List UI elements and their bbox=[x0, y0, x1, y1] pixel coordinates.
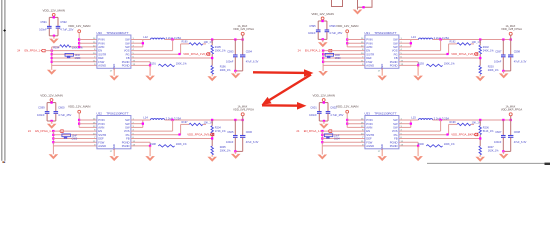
junction bbox=[321, 137, 323, 139]
junction bbox=[417, 64, 419, 66]
wire DEF pin bbox=[53, 138, 97, 140]
resistor R192 (PG pull-up) bbox=[399, 53, 449, 55]
ground (output caps) bbox=[503, 151, 505, 154]
junction bbox=[211, 119, 213, 121]
junction bbox=[52, 137, 54, 139]
wire GND pad bbox=[113, 68, 115, 75]
junction bbox=[502, 38, 504, 40]
capacitor C599 bbox=[45, 111, 50, 113]
capacitor C591 lead bbox=[48, 17, 50, 26]
capacitor C600 bbox=[54, 111, 59, 113]
ground (IC pad) bbox=[377, 76, 387, 81]
junction bbox=[51, 50, 53, 52]
resistor R198 bbox=[158, 145, 174, 147]
junction bbox=[50, 101, 52, 103]
junction bbox=[234, 119, 236, 121]
junction bbox=[440, 38, 442, 40]
junction bbox=[502, 150, 504, 152]
capacitor C595 bbox=[316, 29, 321, 31]
wire stub (cut-off circuit top right U) bbox=[358, 0, 373, 7]
ground (input caps) bbox=[53, 36, 55, 39]
wire SW pin 1 bbox=[399, 119, 411, 121]
svg-text:100nF: 100nF bbox=[494, 140, 502, 144]
svg-text:R199: R199 bbox=[450, 121, 457, 124]
wire divider to ground bbox=[479, 74, 481, 76]
svg-text:200K_1%: 200K_1% bbox=[220, 69, 232, 72]
svg-text:U32: U32 bbox=[96, 111, 102, 115]
resistor R196 (divider bottom) bbox=[211, 66, 213, 75]
wire top rail of input caps bottom-left bbox=[47, 102, 56, 104]
wire PGND bus bbox=[149, 142, 151, 146]
wire VDD bus to PVIN bbox=[346, 33, 348, 47]
resistor R207 (divider bottom) bbox=[479, 146, 481, 155]
svg-text:C601: C601 bbox=[310, 105, 317, 109]
svg-text:FB: FB bbox=[394, 56, 398, 60]
svg-text:SW: SW bbox=[393, 126, 398, 130]
resistor R206 (divider top) bbox=[479, 120, 481, 126]
junction bbox=[51, 53, 53, 55]
wire top rail of input caps top-left bbox=[49, 16, 58, 18]
svg-text:SW: SW bbox=[125, 126, 130, 130]
svg-text:100nF: 100nF bbox=[37, 113, 45, 117]
svg-text:L12: L12 bbox=[143, 35, 148, 39]
svg-text:U31: U31 bbox=[364, 31, 370, 35]
junction bbox=[479, 137, 481, 139]
wire VOS sense bbox=[399, 130, 441, 132]
wire SW pin 3 bbox=[131, 46, 143, 48]
ground (top cut-off circuit) bbox=[357, 7, 359, 9]
svg-text:4.7uF_25V: 4.7uF_25V bbox=[58, 113, 71, 117]
svg-text:24: 24 bbox=[17, 49, 20, 53]
capacitor C591 bbox=[47, 25, 52, 27]
svg-text:C590: C590 bbox=[335, 57, 341, 60]
wire AVIN pin bbox=[347, 46, 365, 48]
svg-text:VDD_BKP_FPGA: VDD_BKP_FPGA bbox=[501, 108, 523, 112]
junction bbox=[479, 57, 481, 59]
svg-text:47uF_6.3V: 47uF_6.3V bbox=[514, 59, 527, 63]
wire divider node bbox=[211, 135, 213, 147]
svg-text:SS/TR: SS/TR bbox=[98, 133, 106, 137]
svg-text:AVIN: AVIN bbox=[366, 45, 372, 49]
wire output caps ground rail bbox=[235, 150, 242, 152]
wire FSW pin bbox=[53, 141, 97, 143]
junction bbox=[78, 46, 80, 48]
wire FSW pin bbox=[322, 141, 365, 143]
wire SW pin 1 bbox=[131, 119, 143, 121]
border zone tick mark bbox=[3, 29, 6, 32]
wire SS/TR pin bbox=[322, 134, 365, 136]
wire AGND pin bbox=[53, 145, 97, 147]
svg-text:100K_1%: 100K_1% bbox=[444, 143, 456, 146]
wire bottom rail of input caps bbox=[317, 32, 319, 40]
svg-text:TPS62130RGTT: TPS62130RGTT bbox=[374, 111, 397, 115]
svg-text:AVIN: AVIN bbox=[366, 126, 372, 130]
svg-text:SS/TR: SS/TR bbox=[366, 133, 374, 137]
svg-text:AGND: AGND bbox=[366, 144, 374, 148]
svg-text:VDD_1V8_FPGA: VDD_1V8_FPGA bbox=[501, 27, 522, 31]
wire output caps ground rail bbox=[503, 150, 510, 152]
wire DEF pin bbox=[322, 138, 365, 140]
off-page connector output net bbox=[206, 53, 210, 56]
ground (IC pad) bbox=[377, 156, 387, 161]
junction bbox=[234, 150, 236, 152]
svg-text:200K_1%: 200K_1% bbox=[220, 149, 232, 152]
wire bottom rail of input caps bbox=[46, 113, 48, 121]
annotation arrow 1 (top, pointing right) bbox=[253, 71, 306, 74]
off-page connector output net bbox=[210, 133, 214, 136]
junction bbox=[171, 38, 173, 40]
svg-text:VDD_12V_MAIN: VDD_12V_MAIN bbox=[42, 8, 65, 12]
border bottom-left mark bbox=[2, 161, 4, 163]
svg-text:DEF: DEF bbox=[366, 137, 372, 141]
wire DEF pin bbox=[323, 57, 365, 59]
wire PGND pin 2 bbox=[399, 64, 418, 66]
svg-text:PVIN: PVIN bbox=[366, 41, 372, 45]
wire output rail bbox=[165, 119, 243, 121]
svg-text:PGND: PGND bbox=[390, 140, 398, 144]
net label VDD_FPGA_BKP_1B bbox=[446, 133, 448, 135]
capacitor C590 bbox=[328, 55, 330, 57]
wire SW pin 3 bbox=[399, 126, 411, 128]
ground (input caps) bbox=[51, 121, 53, 124]
wire FB net bbox=[131, 138, 212, 140]
inductor L12 bbox=[143, 39, 151, 41]
junction bbox=[171, 119, 173, 121]
junction bbox=[346, 42, 348, 44]
wire SS/TR pin bbox=[53, 134, 97, 136]
capacitor C595 lead bbox=[317, 21, 319, 30]
junction bbox=[346, 123, 348, 125]
wire SW pin 1 bbox=[399, 39, 411, 41]
svg-text:PGND: PGND bbox=[390, 60, 398, 64]
svg-text:FB: FB bbox=[394, 137, 398, 141]
svg-text:U30: U30 bbox=[96, 31, 102, 35]
sheet border outer line bbox=[1, 0, 3, 161]
wire PVIN pin 1 bbox=[79, 39, 97, 41]
svg-text:C605: C605 bbox=[227, 130, 234, 134]
capacitor C602 lead bbox=[327, 103, 329, 112]
svg-text:PVIN: PVIN bbox=[366, 38, 372, 42]
svg-text:AVIN: AVIN bbox=[98, 126, 104, 130]
wire VDD bus to PVIN bbox=[346, 113, 348, 127]
svg-text:PG: PG bbox=[394, 52, 398, 56]
junction bbox=[417, 145, 419, 147]
svg-text:PG: PG bbox=[126, 133, 130, 137]
svg-text:C597: C597 bbox=[495, 50, 502, 54]
svg-text:L14: L14 bbox=[143, 116, 148, 120]
wire divider node bbox=[211, 54, 213, 66]
svg-text:VDD_1V0_FPGA: VDD_1V0_FPGA bbox=[233, 27, 254, 31]
ground (PGND) bbox=[145, 76, 155, 81]
wire EN net bbox=[53, 130, 97, 132]
svg-text:R194: R194 bbox=[53, 46, 60, 49]
svg-text:FSW: FSW bbox=[98, 140, 104, 144]
wire AGND pin bbox=[322, 145, 365, 147]
svg-text:VDD_12V_MAIN: VDD_12V_MAIN bbox=[40, 94, 63, 98]
junction bbox=[78, 38, 80, 40]
svg-text:L13: L13 bbox=[411, 35, 416, 39]
wire EN net bbox=[322, 130, 365, 132]
svg-text:SW: SW bbox=[393, 118, 398, 122]
resistor R204 (divider top) bbox=[211, 120, 213, 126]
junction bbox=[51, 61, 53, 63]
svg-text:EN_FPGA_1-1: EN_FPGA_1-1 bbox=[35, 129, 53, 133]
junction bbox=[323, 101, 325, 103]
svg-text:C604: C604 bbox=[334, 138, 340, 141]
junction bbox=[479, 119, 481, 121]
svg-text:SW: SW bbox=[125, 118, 130, 122]
svg-text:511K_1%: 511K_1% bbox=[483, 130, 494, 133]
svg-text:R198: R198 bbox=[150, 143, 157, 146]
capacitor C601 lead bbox=[318, 103, 320, 112]
junction bbox=[502, 119, 504, 121]
wire AVIN pin bbox=[347, 126, 365, 128]
svg-text:C606: C606 bbox=[246, 130, 253, 134]
junction bbox=[479, 38, 481, 40]
wire VOS sense bbox=[131, 50, 173, 52]
svg-text:VDD_12V_MAIN: VDD_12V_MAIN bbox=[312, 94, 335, 98]
off-page connector EN bbox=[328, 49, 332, 52]
junction bbox=[410, 123, 412, 125]
junction bbox=[234, 38, 236, 40]
wire FB net bbox=[399, 138, 480, 140]
resistor R186 (soft-start network box) bbox=[65, 53, 74, 56]
svg-text:SW: SW bbox=[125, 45, 130, 49]
ground (input caps) bbox=[322, 39, 324, 42]
svg-text:SS/TR: SS/TR bbox=[98, 52, 106, 56]
wire divider to ground bbox=[479, 155, 481, 157]
capacitor C589 bbox=[68, 55, 70, 57]
wire AGND pin bbox=[323, 64, 365, 66]
svg-text:SW: SW bbox=[393, 122, 398, 126]
wire VDD bus to PVIN bbox=[78, 113, 80, 127]
svg-text:100K_1%: 100K_1% bbox=[72, 46, 84, 49]
svg-text:47uF_6.3V: 47uF_6.3V bbox=[514, 140, 527, 144]
svg-text:47uF_6.3V: 47uF_6.3V bbox=[246, 59, 259, 63]
capacitor C592 lead bbox=[57, 17, 59, 26]
wire divider node bbox=[479, 54, 481, 66]
svg-text:C599: C599 bbox=[38, 105, 45, 109]
svg-text:24: 24 bbox=[296, 129, 299, 133]
svg-text:R191: R191 bbox=[150, 63, 157, 66]
svg-text:DEF: DEF bbox=[366, 56, 372, 60]
wire output rail bbox=[165, 39, 243, 41]
wire divider to ground bbox=[211, 74, 213, 76]
wire FB net bbox=[399, 57, 480, 59]
ground (divider) bbox=[207, 157, 217, 162]
capacitor C594 bbox=[242, 40, 244, 55]
junction bbox=[53, 35, 55, 37]
svg-text:U33: U33 bbox=[364, 111, 370, 115]
junction bbox=[242, 38, 244, 40]
ground (output caps) bbox=[503, 71, 505, 74]
wire SS/TR pin bbox=[52, 53, 97, 55]
resistor R191 bbox=[158, 64, 174, 66]
wire AVIN pin bbox=[79, 126, 97, 128]
wire PGND to ground bbox=[417, 146, 419, 156]
wire output rail bbox=[433, 119, 511, 121]
svg-text:100nF: 100nF bbox=[308, 31, 316, 35]
wire SW pin 2 bbox=[399, 42, 411, 44]
wire SW pin 3 bbox=[131, 126, 143, 128]
wire PGND to ground bbox=[149, 65, 151, 75]
wire output caps ground rail bbox=[503, 70, 510, 72]
svg-text:PGND: PGND bbox=[390, 144, 398, 148]
wire PGND pin 1 bbox=[131, 141, 150, 143]
junction bbox=[322, 53, 324, 55]
title block corner bbox=[545, 163, 550, 165]
wire PVIN pin 1 bbox=[347, 119, 365, 121]
capacitor C603 bbox=[65, 136, 67, 138]
svg-text:TPS62130RGTT: TPS62130RGTT bbox=[374, 31, 397, 35]
svg-text:VDD_12V_MAIN: VDD_12V_MAIN bbox=[336, 24, 359, 28]
svg-text:SW: SW bbox=[393, 45, 398, 49]
wire SW bus bbox=[410, 120, 412, 127]
svg-text:24: 24 bbox=[298, 49, 301, 53]
wire top rail of input caps bottom-right bbox=[319, 102, 328, 104]
ground (input caps) bbox=[323, 121, 325, 124]
op-amp U U32 TPS62130RGTT (buck regulator IC) bbox=[97, 116, 131, 149]
junction bbox=[149, 145, 151, 147]
ground (PGND) bbox=[145, 156, 155, 161]
svg-text:AGND: AGND bbox=[366, 64, 374, 68]
svg-text:SW: SW bbox=[393, 41, 398, 45]
resistor R194 (EN pull-up) bbox=[52, 46, 60, 48]
resistor R197 (PG pull-up) bbox=[131, 134, 181, 136]
svg-text:EN: EN bbox=[366, 129, 370, 133]
off-page connector EN bbox=[41, 49, 45, 52]
svg-text:C603: C603 bbox=[72, 138, 78, 141]
svg-text:VOS: VOS bbox=[124, 49, 130, 53]
ground (divider) bbox=[207, 76, 217, 81]
annotation arrow 3 (bottom, pointing right) bbox=[262, 104, 299, 107]
off-page connector EN bbox=[60, 130, 64, 133]
wire FB net bbox=[131, 57, 212, 59]
capacitor C604 bbox=[327, 136, 329, 138]
svg-text:VDD_12V_MAIN: VDD_12V_MAIN bbox=[68, 24, 91, 28]
off-page connector output net bbox=[474, 133, 478, 136]
junction bbox=[321, 20, 323, 22]
wire EN-section vertical bus bbox=[322, 51, 324, 71]
junction bbox=[440, 119, 442, 121]
capacitor C596 lead bbox=[326, 21, 328, 30]
svg-text:TPS62130RGTT: TPS62130RGTT bbox=[106, 31, 129, 35]
svg-text:174K_1%: 174K_1% bbox=[215, 130, 227, 133]
wire top rail of input caps top-right bbox=[318, 20, 327, 22]
svg-text:100nF: 100nF bbox=[309, 113, 317, 117]
svg-text:C608: C608 bbox=[514, 130, 521, 134]
op-amp U U33 TPS62130RGTT (buck regulator IC) bbox=[365, 116, 399, 149]
wire VOS sense bbox=[131, 130, 173, 132]
junction bbox=[234, 70, 236, 72]
svg-text:100K_1%: 100K_1% bbox=[176, 143, 188, 146]
wire PGND pin 1 bbox=[131, 61, 150, 63]
svg-text:PVIN: PVIN bbox=[366, 122, 372, 126]
wire SW pin 2 bbox=[131, 42, 143, 44]
wire EN-section vertical bus bbox=[52, 131, 54, 154]
resistor R193 bbox=[426, 64, 442, 66]
wire VOS sense bbox=[399, 50, 441, 52]
svg-text:PG: PG bbox=[126, 52, 130, 56]
capacitor C607 bbox=[502, 120, 504, 135]
wire PGND to ground bbox=[417, 65, 419, 75]
wire PGND pin 1 bbox=[399, 61, 418, 63]
capacitor C596 bbox=[325, 29, 330, 31]
svg-text:162K_1%: 162K_1% bbox=[488, 149, 500, 152]
svg-text:VDD_12V_MAIN: VDD_12V_MAIN bbox=[68, 105, 91, 109]
ground (divider) bbox=[475, 157, 485, 162]
wire PVIN pin 1 bbox=[347, 39, 365, 41]
sheet border inner line bbox=[4, 0, 6, 161]
wire EN net bbox=[45, 50, 97, 52]
resistor R199 (PG pull-up) bbox=[399, 134, 449, 136]
svg-text:100K_1%: 100K_1% bbox=[215, 49, 227, 52]
wire bottom rail of input caps bbox=[48, 28, 50, 36]
svg-text:FSW: FSW bbox=[366, 140, 372, 144]
ground (EN section) bbox=[318, 155, 328, 160]
svg-text:VOS: VOS bbox=[392, 49, 398, 53]
resistor R200 bbox=[426, 145, 442, 147]
capacitor C600 lead bbox=[55, 103, 57, 112]
svg-text:C598: C598 bbox=[514, 50, 521, 54]
junction bbox=[51, 57, 53, 59]
resistor R190 (PG pull-up) bbox=[131, 53, 181, 55]
capacitor C599 lead bbox=[46, 103, 48, 112]
wire divider to ground bbox=[211, 155, 213, 157]
ground (EN section) bbox=[318, 71, 328, 76]
svg-text:4.7uF_25V: 4.7uF_25V bbox=[330, 113, 343, 117]
resistor R203 (divider bottom) bbox=[479, 66, 481, 75]
svg-text:SW: SW bbox=[125, 38, 130, 42]
svg-text:PGND: PGND bbox=[122, 144, 130, 148]
net label VDD_FPGA_1V0_1B bbox=[178, 53, 180, 55]
junction bbox=[346, 38, 348, 40]
svg-text:SW: SW bbox=[125, 41, 130, 45]
svg-text:SW: SW bbox=[393, 38, 398, 42]
svg-text:TPS62130RGTT: TPS62130RGTT bbox=[106, 111, 129, 115]
junction bbox=[322, 38, 324, 40]
svg-text:4.7uF_25V: 4.7uF_25V bbox=[329, 31, 342, 35]
resistor R188 (soft-start network box) bbox=[62, 134, 71, 137]
svg-text:PVIN: PVIN bbox=[98, 38, 104, 42]
svg-text:C592: C592 bbox=[60, 20, 67, 24]
wire DEF pin bbox=[52, 57, 97, 59]
wire SW pin 1 bbox=[131, 39, 143, 41]
wire SW bus bbox=[410, 40, 412, 47]
wire PVIN pin 2 bbox=[79, 42, 97, 44]
junction bbox=[362, 6, 364, 8]
svg-text:PGND: PGND bbox=[122, 64, 130, 68]
svg-text:AGND: AGND bbox=[98, 144, 106, 148]
svg-text:DEF: DEF bbox=[98, 56, 104, 60]
wire PVIN pin 2 bbox=[79, 123, 97, 125]
svg-text:DEF: DEF bbox=[98, 137, 104, 141]
wire SW pin 3 bbox=[399, 46, 411, 48]
resistor R195 (divider top) bbox=[211, 40, 213, 46]
junction bbox=[142, 42, 144, 44]
annotation arrow 2 (diagonal, pointing lower-left) bbox=[267, 75, 311, 102]
junction bbox=[78, 119, 80, 121]
inductor L13 bbox=[411, 39, 419, 41]
junction bbox=[211, 57, 213, 59]
wire FSW pin bbox=[323, 61, 365, 63]
ground (EN section) bbox=[49, 154, 59, 159]
svg-text:FB: FB bbox=[126, 137, 130, 141]
svg-text:100nF: 100nF bbox=[39, 28, 47, 32]
junction bbox=[321, 134, 323, 136]
wire GND pad bbox=[381, 149, 383, 156]
svg-text:PVIN: PVIN bbox=[98, 118, 104, 122]
